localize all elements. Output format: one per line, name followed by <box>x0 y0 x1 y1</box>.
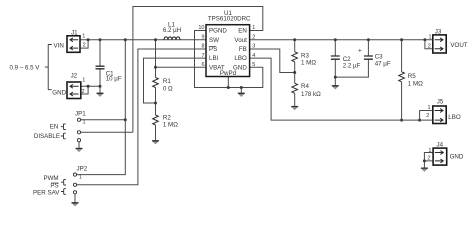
node GND output label <box>450 154 464 161</box>
svg-text:J3: J3 <box>435 29 442 36</box>
svg-text:6: 6 <box>201 62 204 68</box>
wire PS pin8 to JP2 pin2 <box>77 49 206 185</box>
svg-text:PwPd: PwPd <box>220 70 237 77</box>
resistor R3 <box>292 52 316 67</box>
wire R5 chain <box>401 40 403 120</box>
wire VOUT rail <box>250 39 433 41</box>
wire J5 pin1 loop <box>420 111 433 121</box>
inductor L1 <box>163 22 181 40</box>
svg-text:0.9 – 6.5 V: 0.9 – 6.5 V <box>10 64 41 71</box>
svg-text:GND: GND <box>52 89 66 96</box>
svg-text:EN: EN <box>50 123 59 130</box>
svg-text:2: 2 <box>426 113 429 119</box>
svg-text:PS: PS <box>50 182 58 189</box>
wire J1 pin2 loop <box>80 40 88 48</box>
node junction VBAT tap on rail <box>154 38 157 41</box>
svg-text:JP2: JP2 <box>77 166 88 173</box>
wire LBO pin4 to J5 <box>250 58 433 120</box>
svg-text:0 Ω: 0 Ω <box>163 86 173 93</box>
svg-text:PGND: PGND <box>209 28 227 35</box>
svg-text:1 MΩ: 1 MΩ <box>408 80 423 87</box>
svg-text:PER SAV: PER SAV <box>33 190 60 197</box>
node junction VBAT pin6 <box>154 66 157 69</box>
svg-text:PWM: PWM <box>43 175 58 182</box>
wire J3 pin2 loop <box>425 40 433 49</box>
wire C1 bottom to ground and J2 <box>81 69 100 94</box>
ground under JP1 <box>76 142 83 152</box>
wire C1 top <box>99 40 101 66</box>
node VIN input label and brace <box>10 42 67 96</box>
node LBO label <box>448 114 461 121</box>
node VOUT label <box>450 42 467 49</box>
wire VIN rail from J1 to SW pin <box>80 39 206 41</box>
svg-text:1: 1 <box>428 148 431 154</box>
connector J1 <box>67 29 86 52</box>
node junction C1 top <box>99 38 102 41</box>
svg-text:VOUT: VOUT <box>450 42 467 49</box>
svg-text:1: 1 <box>82 77 85 83</box>
wire EN top rail <box>133 7 263 133</box>
svg-text:J2: J2 <box>71 73 78 80</box>
svg-text:SW: SW <box>209 37 219 44</box>
svg-text:2: 2 <box>252 35 255 41</box>
wire VIN riser to JP1 pin1 and JP2 pin1 <box>77 40 126 175</box>
node EN DISABLE labels <box>34 123 66 140</box>
svg-text:1 MΩ: 1 MΩ <box>301 60 316 67</box>
svg-text:DISABLE: DISABLE <box>34 133 60 140</box>
node junction R5 bottom <box>400 119 403 122</box>
node junction R3 R4 FB <box>293 71 296 74</box>
svg-text:EN: EN <box>238 28 247 35</box>
node junction R5 top <box>400 38 403 41</box>
wire PGND pin10 to power pad rail <box>195 31 263 88</box>
ground under U1 power pad <box>238 88 245 97</box>
jumper JP1 <box>75 110 86 141</box>
node junction VIN riser <box>124 38 127 41</box>
ground under JP2 <box>72 194 79 206</box>
ground under R4 <box>291 107 298 110</box>
connector J2 <box>67 73 85 99</box>
svg-text:2: 2 <box>428 44 431 50</box>
node junction R3 top <box>293 38 296 41</box>
svg-text:5: 5 <box>252 62 255 68</box>
svg-text:R4: R4 <box>301 83 309 90</box>
wire JP1 pin2 to EN riser <box>81 131 133 133</box>
svg-text:10: 10 <box>198 25 204 31</box>
svg-text:1: 1 <box>252 25 255 31</box>
node junction C3 top <box>367 38 370 41</box>
node junction J5 tap <box>418 119 421 122</box>
node junction J2 loop <box>87 85 90 88</box>
resistor R2 <box>153 115 179 129</box>
svg-text:LBI: LBI <box>209 55 219 62</box>
capacitor C2 <box>331 56 361 70</box>
node PWM PS PER-SAV labels <box>33 175 66 197</box>
svg-text:2: 2 <box>82 89 85 95</box>
node junction C1 bottom <box>99 85 102 88</box>
wire R3 R4 divider chain <box>294 40 296 106</box>
svg-text:1: 1 <box>82 34 85 40</box>
svg-text:7: 7 <box>201 53 204 59</box>
svg-text:J5: J5 <box>437 98 444 105</box>
capacitor C3 polarized <box>358 48 391 68</box>
wire FB pin3 to divider <box>250 49 295 73</box>
wire LBI pin7 to R1 R2 junction <box>144 58 207 103</box>
svg-text:1: 1 <box>428 35 431 41</box>
node junction J1 <box>87 38 90 41</box>
ground under C1 <box>97 88 104 97</box>
svg-text:VIN: VIN <box>54 42 64 49</box>
node junction ground tap under U1 <box>240 86 243 89</box>
wire VBAT chain down from VIN rail <box>155 40 157 141</box>
svg-text:1 MΩ: 1 MΩ <box>163 121 178 128</box>
svg-text:3: 3 <box>252 44 255 50</box>
svg-text:2: 2 <box>427 156 430 162</box>
svg-text:TPS61020DRC: TPS61020DRC <box>208 16 251 23</box>
svg-text:Vout: Vout <box>234 37 247 44</box>
svg-text:R3: R3 <box>301 52 309 59</box>
svg-text:PS: PS <box>209 46 217 53</box>
svg-text:2: 2 <box>83 43 86 49</box>
svg-text:1: 1 <box>83 120 86 126</box>
wire PwPd stem <box>227 77 229 88</box>
wire C3 stems and bottom link <box>335 40 368 77</box>
svg-text:R5: R5 <box>408 73 416 80</box>
svg-text:J1: J1 <box>71 29 78 36</box>
ground under C2 <box>332 79 339 89</box>
node junction PwPd <box>227 86 230 89</box>
svg-text:+: + <box>358 48 362 55</box>
node junction J3 tap <box>423 38 426 41</box>
svg-text:47 µF: 47 µF <box>375 60 391 67</box>
svg-text:LBO: LBO <box>234 55 247 62</box>
svg-text:4: 4 <box>252 53 255 59</box>
svg-text:1: 1 <box>79 175 82 181</box>
wire VBAT pin6 <box>156 66 207 68</box>
svg-text:9: 9 <box>201 35 204 41</box>
svg-text:R1: R1 <box>163 78 171 85</box>
svg-text:1: 1 <box>427 105 430 111</box>
jumper JP2 <box>73 166 87 194</box>
node junction C2 bottom <box>334 76 337 79</box>
wire C2 stems <box>334 40 336 79</box>
svg-text:J4: J4 <box>437 141 444 148</box>
wire JP1 pin1 <box>81 119 126 121</box>
node junction R1 R2 LBI <box>154 102 157 105</box>
connector J4 <box>427 141 446 165</box>
svg-text:JP1: JP1 <box>75 110 86 117</box>
svg-text:6.2 µH: 6.2 µH <box>163 27 181 34</box>
resistor R5 <box>399 72 423 88</box>
svg-text:LBO: LBO <box>448 114 461 121</box>
svg-text:10 µF: 10 µF <box>106 75 122 82</box>
resistor R4 <box>292 83 321 98</box>
node junction J4 <box>423 159 426 162</box>
ground under J4 <box>421 168 428 171</box>
svg-text:2.2 µF: 2.2 µF <box>343 63 361 70</box>
svg-text:8: 8 <box>201 44 204 50</box>
ground under R2 <box>152 141 159 144</box>
svg-text:178 kΩ: 178 kΩ <box>301 91 321 98</box>
resistor R1 <box>153 78 173 93</box>
connector J3 <box>428 29 446 53</box>
svg-text:GND: GND <box>450 154 464 161</box>
capacitor C1 <box>96 66 122 82</box>
node junction JP1 pin1 tap <box>124 118 127 121</box>
wire J4 pin1 loop and ground stem <box>424 153 433 168</box>
node junction C2 top <box>334 38 337 41</box>
svg-text:FB: FB <box>239 46 247 53</box>
connector J5 <box>426 98 446 123</box>
op-amp U1 TPS61020DRC <box>198 10 255 77</box>
